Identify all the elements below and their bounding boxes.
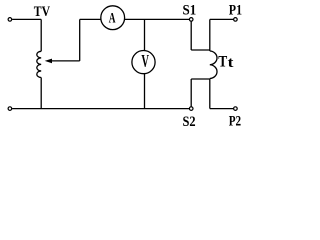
terminal X1 top-left <box>8 18 12 22</box>
wire <box>210 18 234 20</box>
wire <box>40 19 42 51</box>
ammeter A circle <box>101 6 125 30</box>
wire <box>191 78 210 80</box>
terminal P2 <box>234 107 238 111</box>
wire <box>79 19 81 61</box>
wire <box>210 108 234 110</box>
svg-text:V: V <box>141 51 149 71</box>
svg-text:P1: P1 <box>229 3 242 19</box>
terminal P1 <box>234 18 238 22</box>
terminal X2 bottom-left <box>8 107 12 111</box>
svg-text:P2: P2 <box>229 113 241 129</box>
wire <box>40 78 42 109</box>
wire <box>190 21 192 50</box>
wire <box>190 79 192 107</box>
terminal S2 <box>189 107 193 111</box>
wire <box>144 73 146 108</box>
transformer Tt winding <box>210 51 217 79</box>
wire bottom bus <box>12 108 189 110</box>
wire <box>209 79 211 109</box>
svg-text:T: T <box>218 53 228 70</box>
wire <box>80 18 101 20</box>
wire <box>209 19 211 51</box>
wiper arrowhead <box>45 59 52 64</box>
svg-text:TV: TV <box>34 4 50 20</box>
wire <box>191 49 210 51</box>
voltmeter V circle <box>132 51 155 74</box>
svg-text:A: A <box>109 10 116 26</box>
wiper arrow of TV <box>51 60 80 62</box>
svg-text:t: t <box>228 55 234 71</box>
autotransformer TV winding <box>37 51 41 77</box>
wire <box>144 19 146 50</box>
wire <box>125 18 190 20</box>
wire <box>12 18 41 20</box>
svg-text:S1: S1 <box>183 2 197 18</box>
svg-text:S2: S2 <box>183 114 196 130</box>
terminal S1 <box>189 18 193 22</box>
